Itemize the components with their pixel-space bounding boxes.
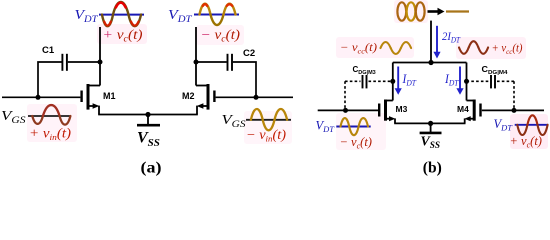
wire common source rail (a) bbox=[98, 114, 198, 116]
wire M1 drain up to VDT bbox=[99, 27, 101, 86]
current arrow IDT right bbox=[456, 67, 463, 95]
svg-text:− vc(t): − vc(t) bbox=[201, 28, 241, 44]
capacitor C2 label bbox=[243, 48, 255, 59]
svg-text:− vc(t): − vc(t) bbox=[340, 135, 372, 151]
wire M3 gate lead bbox=[318, 109, 378, 111]
wire M4 gate lead bbox=[482, 109, 544, 111]
VDT left dc baseline bbox=[99, 14, 144, 16]
label M1 bbox=[103, 91, 116, 101]
junction dot C1-drain bbox=[98, 60, 103, 65]
junction dot drain M3 / CDG bbox=[390, 79, 395, 84]
ground VSS symbol (a) bbox=[137, 115, 160, 126]
value label +vc(t) bottom-right bbox=[510, 134, 542, 150]
label VSS (b) bbox=[421, 133, 441, 150]
wire C1 right lead to drain bbox=[68, 61, 100, 63]
halo behind 2f loops bbox=[394, 0, 428, 23]
wire M1 source down bbox=[98, 106, 100, 115]
transistor M2 bbox=[196, 84, 214, 110]
halo behind VGS left source bbox=[27, 104, 77, 142]
label M4 bbox=[457, 104, 469, 114]
VGS left dc baseline bbox=[28, 115, 71, 117]
svg-text:M4: M4 bbox=[457, 104, 469, 114]
node VGS right label bbox=[222, 113, 246, 130]
value label +vin(t) left bbox=[29, 126, 72, 143]
caption (b) bbox=[423, 160, 442, 177]
VGS left sine waveform +vin bbox=[32, 105, 70, 125]
VDT bottom-left dc baseline bbox=[336, 126, 370, 128]
wire M2 gate lead bbox=[216, 96, 293, 98]
node VDT bottom-right label bbox=[494, 117, 514, 133]
wire M1 gate lead bbox=[2, 96, 80, 98]
VDT right dc baseline bbox=[194, 14, 239, 16]
halo behind VDT bottom-right bbox=[510, 114, 548, 149]
current arrow 2IDT bbox=[433, 26, 440, 59]
VGS right dc baseline bbox=[246, 119, 291, 121]
svg-text:+ vc(t): + vc(t) bbox=[510, 134, 542, 150]
transistor M4 bbox=[464, 100, 480, 122]
value label -vin(t) right bbox=[246, 127, 287, 144]
value label -vcc(t) bbox=[340, 42, 377, 56]
junction dot C2-drain bbox=[194, 60, 199, 65]
junction dot top rail bbox=[428, 60, 433, 65]
halo behind VDT bottom-left bbox=[336, 113, 386, 150]
value label -vc(t) right bbox=[201, 28, 241, 44]
svg-text:M1: M1 bbox=[103, 91, 116, 101]
label M3 bbox=[396, 104, 408, 114]
svg-text:(a): (a) bbox=[141, 160, 162, 177]
VDT bottom-left sine waveform bbox=[341, 118, 369, 135]
junction dot gate-C1 left bbox=[36, 95, 41, 100]
junction dot gate M3 / CDG bbox=[343, 108, 348, 113]
label IDT left bbox=[402, 71, 418, 88]
current arrow IDT left bbox=[395, 67, 402, 95]
arrow 2f to dc bbox=[428, 8, 445, 15]
junction dot source rail (a) bbox=[145, 112, 150, 117]
capacitor C1 bbox=[62, 54, 67, 71]
value label +vcc(t) bbox=[492, 42, 523, 56]
wire M3 drain vertical bbox=[392, 63, 394, 101]
wire top node vertical bbox=[430, 21, 432, 63]
label M2 bbox=[182, 91, 195, 101]
svg-text:C1: C1 bbox=[42, 45, 55, 56]
caption (a) bbox=[141, 160, 162, 177]
wire M4 source down bbox=[464, 118, 466, 123]
wire M3 source down bbox=[394, 118, 396, 123]
value label +vc(t) left bbox=[103, 28, 143, 44]
halo behind -vcc(t) bbox=[336, 37, 414, 58]
halo behind -vc(t) right bbox=[196, 25, 244, 45]
svg-text:M3: M3 bbox=[396, 104, 408, 114]
wire M4 drain vertical bbox=[466, 63, 468, 101]
label IDT right bbox=[444, 71, 460, 88]
label 2IDT bbox=[442, 29, 460, 45]
value label -vc(t) bottom-left bbox=[340, 135, 372, 151]
halo behind +vcc(t) bbox=[456, 37, 526, 59]
node VDT left label bbox=[75, 8, 99, 25]
wire C2 left lead to drain bbox=[196, 61, 227, 63]
wire M2 source down bbox=[196, 106, 198, 115]
VDT bottom-right dc baseline bbox=[515, 124, 549, 126]
VGS right sine waveform -vin bbox=[251, 109, 287, 130]
junction dot gate-C2 right bbox=[254, 95, 259, 100]
node VDT bottom-left label bbox=[316, 119, 336, 135]
capacitor C1 label bbox=[42, 45, 55, 56]
label CDG|M4 bbox=[482, 65, 509, 76]
junction dot drain M4 / CDG bbox=[464, 79, 469, 84]
halo behind VGS right source bbox=[244, 111, 292, 144]
svg-text:+ vc(t): + vc(t) bbox=[103, 28, 143, 44]
2f ripple loops icon bbox=[397, 2, 424, 20]
transistor M1 bbox=[82, 84, 100, 110]
svg-text:(b): (b) bbox=[423, 160, 442, 177]
VDT bottom-right sine waveform bbox=[517, 115, 547, 135]
capacitor C2 bbox=[228, 54, 233, 71]
node VDT right label bbox=[168, 8, 192, 25]
VDT left sine waveform +vc bbox=[102, 2, 141, 26]
dc level line icon bbox=[446, 10, 469, 12]
wire C1 left lead and down to gate bbox=[38, 62, 62, 97]
svg-text:M2: M2 bbox=[182, 91, 195, 101]
junction dot source rail (b) bbox=[428, 121, 433, 126]
capacitor CDG|M4 dashed branch bbox=[467, 75, 515, 110]
capacitor CDG|M3 dashed branch bbox=[345, 75, 393, 110]
VDT right sine waveform -vc bbox=[200, 4, 236, 25]
wire top drain rail (b) bbox=[393, 62, 467, 64]
junction dot gate M4 / CDG bbox=[512, 108, 517, 113]
wire M2 drain up to VDT bbox=[195, 27, 197, 86]
sine icon left of top node bbox=[381, 42, 412, 54]
label CDG|M3 bbox=[353, 65, 376, 76]
ground VSS symbol (b) bbox=[420, 123, 442, 132]
wire C2 right lead and down to gate bbox=[233, 62, 256, 97]
halo behind +vc(t) left bbox=[97, 24, 147, 44]
label VSS (a) bbox=[137, 130, 160, 150]
wire common source rail (b) bbox=[394, 122, 465, 124]
node VGS left label bbox=[1, 109, 26, 126]
sine icon right of top node bbox=[459, 41, 488, 54]
transistor M3 bbox=[379, 100, 395, 122]
svg-text:C2: C2 bbox=[243, 48, 255, 59]
